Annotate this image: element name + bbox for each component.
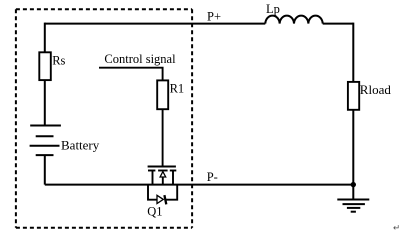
wire from inductor to right corner [323, 23, 354, 25]
channel segment source side [170, 170, 177, 172]
resistor Rs [39, 52, 51, 80]
wire battery to bottom rail [44, 155, 46, 185]
diode cathode stroke [164, 195, 166, 204]
wire top horizontal from left branch to inductor [45, 23, 265, 25]
svg-text:Control signal: Control signal [104, 52, 176, 66]
svg-text:Q1: Q1 [147, 205, 162, 219]
svg-text:Rload: Rload [360, 82, 392, 97]
wire left vertical top (to Rs) [44, 23, 46, 53]
inductor Lp [265, 16, 322, 24]
wire right vertical upper [352, 23, 354, 82]
dashed converter-block boundary [16, 9, 192, 228]
svg-text:P+: P+ [207, 10, 221, 24]
gate bar [148, 166, 176, 168]
wire control signal to R1 [99, 68, 163, 81]
wire right vertical lower [352, 110, 354, 185]
svg-text:R1: R1 [170, 81, 185, 95]
svg-text:P-: P- [207, 170, 218, 184]
node junction at ground [351, 182, 356, 187]
svg-text:↵: ↵ [393, 223, 400, 233]
channel segment drain side [148, 170, 155, 172]
source leg [172, 171, 174, 185]
resistor R1 [157, 80, 168, 109]
diode triangle [157, 195, 163, 203]
resistor Rload [348, 82, 359, 110]
battery [30, 126, 61, 156]
body diode of Q1 [148, 185, 177, 205]
svg-text:Rs: Rs [52, 54, 65, 68]
transistor Q1 (MOSFET) [148, 167, 177, 185]
body lead [162, 177, 164, 185]
ground [337, 185, 369, 212]
body arrow [160, 172, 166, 177]
wire bottom P- rail [45, 184, 354, 186]
svg-text:Lp: Lp [266, 2, 280, 16]
channel segment body [158, 170, 168, 172]
wire gate lead R1 to Q1 [162, 109, 164, 166]
svg-text:Battery: Battery [61, 138, 100, 153]
wire Rs to battery [44, 80, 46, 125]
drain leg [152, 171, 154, 185]
